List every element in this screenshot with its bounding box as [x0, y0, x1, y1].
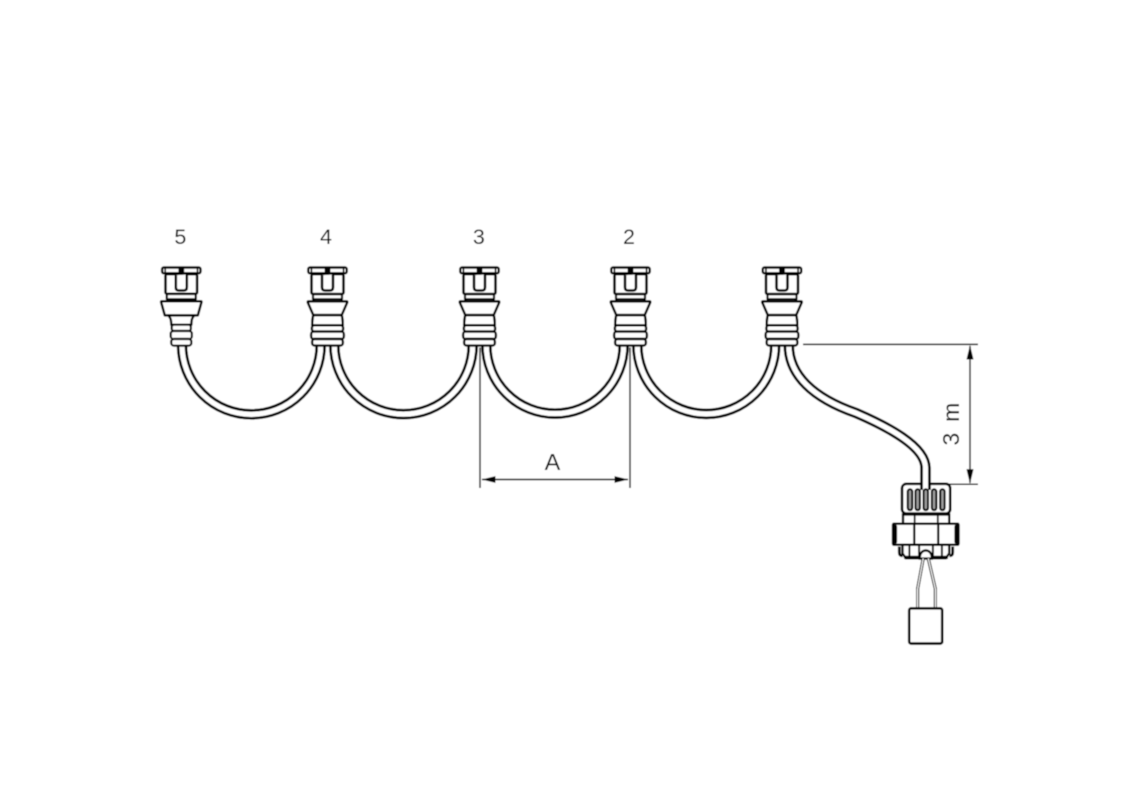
dimension A: left extension line (from connector 3) [479, 348, 481, 489]
main plug: cable gland cap body [902, 484, 950, 514]
svg-text:5: 5 [174, 225, 186, 249]
connector 1 (unlabelled) [762, 268, 802, 346]
dimension A: right arrowhead [615, 476, 629, 483]
main plug: terminal housing [909, 608, 942, 643]
svg-text:3 m: 3 m [938, 401, 964, 446]
dimension A: dimension line [482, 479, 628, 481]
connector 2 [611, 268, 651, 346]
wire: cable loop between connector 2 and connector 1 [637, 345, 775, 414]
svg-text:2: 2 [623, 225, 635, 249]
main plug: hex nut [892, 524, 959, 545]
dimension 3 m: bottom extension line [948, 483, 978, 485]
svg-text:3: 3 [473, 225, 485, 249]
wire: cable loop between connector 5 and connector 4 [182, 345, 321, 414]
connector 4 [308, 268, 348, 346]
wire: twin leads from latch body to terminal plug [918, 559, 936, 610]
dimension A: left arrowhead [482, 476, 496, 483]
dimension 3 m: dimension line [969, 346, 971, 483]
main plug: collar [903, 515, 949, 524]
dimension 3 m: bottom arrowhead [967, 469, 974, 484]
connector 5 (end plug) [161, 268, 201, 346]
wire: cable loop between connector 4 and connector 3 [334, 345, 472, 414]
dimension 3 m: top extension line [803, 343, 978, 345]
wire: cable loop between connector 3 and connector 2 [486, 345, 623, 414]
dimension A: right extension line (from connector 2) [629, 348, 631, 489]
svg-text:4: 4 [320, 225, 332, 249]
main plug: gland cap grooves [908, 489, 945, 510]
svg-text:A: A [545, 449, 561, 475]
wire: 3 m lead from connector 1 down to main plug [789, 345, 926, 490]
dimension 3 m: top arrowhead [967, 345, 974, 360]
main plug: lower latch body [899, 545, 952, 559]
connector 3 [460, 268, 500, 346]
